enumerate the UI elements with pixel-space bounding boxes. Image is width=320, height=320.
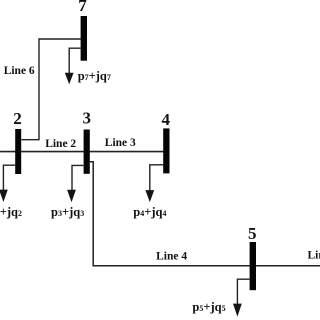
wire load tap bus 3 bbox=[72, 165, 83, 191]
svg-text:p7+jq7: p7+jq7 bbox=[78, 69, 111, 83]
arrowhead load 2 bbox=[0, 190, 8, 202]
bus 2 bar bbox=[15, 129, 21, 174]
arrowhead load 4 bbox=[145, 190, 154, 202]
svg-text:5: 5 bbox=[248, 224, 257, 243]
svg-text:Line 3: Line 3 bbox=[105, 137, 136, 149]
svg-text:p4+jq4: p4+jq4 bbox=[133, 205, 166, 219]
wire load tap bus 5 bbox=[237, 279, 249, 305]
svg-text:Line 6: Line 6 bbox=[4, 65, 35, 77]
wire load tap bus 2 bbox=[3, 165, 15, 191]
svg-text:7: 7 bbox=[78, 0, 87, 15]
wire load tap bus 7 bbox=[69, 48, 80, 74]
wire main feeder line buses 2-3-4 bbox=[0, 151, 166, 153]
arrowhead load 3 bbox=[67, 190, 76, 202]
svg-text:3: 3 bbox=[83, 109, 92, 128]
bus 4 bar bbox=[163, 128, 169, 173]
svg-text:Line 2: Line 2 bbox=[45, 138, 76, 150]
arrowhead load 7 bbox=[65, 73, 74, 84]
svg-text:Line 4: Line 4 bbox=[156, 251, 187, 263]
arrowhead load 5 bbox=[233, 304, 242, 317]
wire Line 6 from bus 7 to bus 2 bbox=[21, 39, 80, 140]
svg-text:2: 2 bbox=[13, 109, 22, 128]
svg-text:p5+jq5: p5+jq5 bbox=[192, 300, 225, 314]
wire load tap bus 4 bbox=[150, 165, 163, 192]
wire Line 4 from bus 3 down and right to bus 5 and Line 5 off right bbox=[90, 162, 320, 266]
svg-text:Line 5: Line 5 bbox=[308, 250, 320, 262]
svg-text:4: 4 bbox=[161, 110, 170, 129]
bus 7 bar bbox=[81, 16, 87, 61]
bus 5 bar bbox=[250, 242, 256, 290]
bus 3 bar bbox=[84, 130, 90, 174]
svg-text:p3+jq3: p3+jq3 bbox=[51, 205, 84, 219]
